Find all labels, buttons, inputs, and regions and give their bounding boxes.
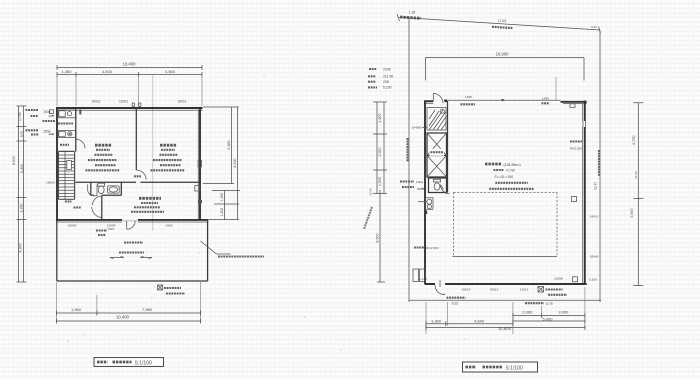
svg-text:16011: 16011 xyxy=(92,100,101,104)
right wall window squares xyxy=(572,197,577,202)
svg-text:4,640: 4,640 xyxy=(474,318,485,323)
extension lines from top dims xyxy=(57,75,202,106)
closet door arc xyxy=(76,139,86,149)
svg-text:2,500: 2,500 xyxy=(378,147,382,156)
svg-text:12.46: 12.46 xyxy=(634,171,638,179)
svg-text:1,800: 1,800 xyxy=(220,208,224,216)
bottom wall 1F xyxy=(425,283,587,285)
svg-text:FL=GL+150: FL=GL+150 xyxy=(495,175,514,179)
bottom dims xyxy=(56,282,200,322)
svg-text:211.96: 211.96 xyxy=(383,75,393,79)
window sill mark top right xyxy=(570,104,575,108)
road boundary rotated label left xyxy=(406,138,408,162)
balcony outline xyxy=(57,221,208,281)
svg-text:10,900: 10,900 xyxy=(496,52,509,57)
tick boxes above wall xyxy=(132,103,134,106)
interior wall vertical between rooms xyxy=(135,109,137,170)
svg-text:S:1/100: S:1/100 xyxy=(506,366,523,372)
svg-text:16011: 16011 xyxy=(178,100,187,104)
svg-text:700Y: 700Y xyxy=(107,227,114,231)
right dim stack of left plan xyxy=(232,107,238,220)
building right wall xyxy=(584,101,586,285)
svg-text:0.32: 0.32 xyxy=(591,25,597,29)
toilet door 1F xyxy=(441,185,450,194)
building left wall xyxy=(424,101,426,285)
mezzanine dashed outline xyxy=(454,192,558,255)
svg-text:3,000: 3,000 xyxy=(558,310,569,315)
toilet block walls xyxy=(91,182,122,196)
fold line light vertical xyxy=(152,75,154,231)
door jamb blob xyxy=(444,100,447,103)
exhaust duct note xyxy=(158,285,163,290)
storage room label block xyxy=(139,197,161,200)
svg-text:11013: 11013 xyxy=(520,288,529,292)
right wall window notch xyxy=(582,121,587,127)
site boundary slanted road line xyxy=(399,17,600,30)
svg-text:1,960: 1,960 xyxy=(71,307,82,312)
svg-text:1490: 1490 xyxy=(465,95,472,99)
svg-text:1490: 1490 xyxy=(542,96,549,100)
svg-text:16040: 16040 xyxy=(590,255,599,259)
svg-text:16009: 16009 xyxy=(46,181,55,185)
corridor label xyxy=(74,206,82,208)
dimension line 10,400 top total xyxy=(57,65,202,70)
svg-text:5,230: 5,230 xyxy=(383,86,392,90)
stair core right wall xyxy=(447,101,449,193)
svg-text:5,400: 5,400 xyxy=(20,164,24,173)
svg-text:4,560: 4,560 xyxy=(165,69,176,74)
balcony labels xyxy=(124,241,143,243)
svg-text:16013: 16013 xyxy=(462,288,471,292)
svg-text:6.79: 6.79 xyxy=(546,302,553,306)
DN label xyxy=(65,200,72,202)
shutter opening thin line xyxy=(447,99,561,101)
toilet room 1F xyxy=(429,178,447,193)
svg-text:10,400: 10,400 xyxy=(123,62,136,67)
left dim stack 1F xyxy=(377,102,384,194)
vanity counter xyxy=(88,184,97,196)
svg-text:228: 228 xyxy=(383,80,389,84)
svg-text:4,730: 4,730 xyxy=(506,169,515,173)
balcony door xyxy=(127,221,136,229)
toilet fixture xyxy=(98,183,105,186)
svg-text:D=800: D=800 xyxy=(412,126,421,130)
concrete hook callout xyxy=(201,241,231,254)
svg-text:8,510: 8,510 xyxy=(12,156,16,165)
svg-text:10,900: 10,900 xyxy=(498,326,511,331)
dimension line top subdivisions 1,360 / 4,500 / 4,560 xyxy=(57,72,202,77)
top wall xyxy=(56,107,203,109)
left dim stack xyxy=(19,106,24,282)
washing machine xyxy=(425,198,433,210)
svg-text:5,460: 5,460 xyxy=(227,140,231,149)
svg-text:12.47: 12.47 xyxy=(594,182,598,190)
right wall labels xyxy=(570,140,582,142)
top dim 10,900 xyxy=(426,58,585,81)
svg-text:5,100: 5,100 xyxy=(589,278,597,282)
svg-text:16012: 16012 xyxy=(490,288,499,292)
kitchen counter unit xyxy=(58,110,76,118)
svg-text:10,400: 10,400 xyxy=(116,315,129,320)
bottom wall of rooms / balcony top xyxy=(56,219,209,221)
vent labels below wall xyxy=(96,229,107,231)
door jamb tick xyxy=(79,110,81,115)
svg-text:6.32: 6.32 xyxy=(452,302,459,306)
exhaust duct note 1F xyxy=(538,287,544,293)
svg-text:2208: 2208 xyxy=(383,67,391,71)
toilet door arcs xyxy=(92,196,101,205)
svg-text:100φ: 100φ xyxy=(416,180,423,184)
vent label 1F xyxy=(400,182,414,188)
staircase 1F xyxy=(427,108,447,131)
left outside labels: water heater / vent xyxy=(26,110,56,135)
neighbor boundary note bottom xyxy=(525,302,544,304)
door threshold line xyxy=(122,220,138,222)
svg-text:4,300: 4,300 xyxy=(19,243,23,252)
svg-text:12.46: 12.46 xyxy=(369,188,373,196)
svg-text:W=2,930: W=2,930 xyxy=(426,246,439,250)
bottom dims 1F xyxy=(426,287,585,334)
site boundary line bottom xyxy=(410,299,602,301)
right site boundary vertical xyxy=(599,30,601,302)
entry door bottom xyxy=(439,280,441,287)
interior wall horizontal xyxy=(76,181,201,183)
kitchen divider wall xyxy=(75,109,77,152)
water slope arrows xyxy=(110,256,152,258)
svg-text:1,790: 1,790 xyxy=(18,112,22,121)
level note xyxy=(414,246,424,248)
svg-text:1,360: 1,360 xyxy=(431,318,442,323)
title block 2F xyxy=(94,358,164,367)
top wall right dark segment xyxy=(561,101,587,103)
elevator shaft xyxy=(427,133,447,177)
title block 1F xyxy=(463,362,538,372)
svg-text:6,750: 6,750 xyxy=(632,135,636,144)
svg-text:1,330: 1,330 xyxy=(20,203,24,212)
window notch right wall xyxy=(198,161,202,167)
svg-text:250φ: 250φ xyxy=(43,130,50,134)
svg-text:2,060: 2,060 xyxy=(522,310,533,315)
workshop room label block xyxy=(485,163,502,166)
svg-text:RH2,000: RH2,000 xyxy=(570,147,582,151)
svg-text:1180B: 1180B xyxy=(554,277,563,281)
svg-text:S:1/100: S:1/100 xyxy=(135,361,152,367)
oshiire closet label xyxy=(60,144,69,146)
kitchen label xyxy=(58,122,73,124)
svg-text:1900: 1900 xyxy=(166,224,173,228)
staircase xyxy=(58,151,74,199)
svg-text:8,900: 8,900 xyxy=(376,233,380,242)
svg-text:16011: 16011 xyxy=(119,100,128,104)
washbasin fixture xyxy=(108,186,120,193)
left site boundary vertical xyxy=(408,18,410,303)
building top wall xyxy=(424,100,433,102)
svg-text:8,190: 8,190 xyxy=(233,158,237,167)
shutter center mark xyxy=(501,99,504,101)
svg-text:16909: 16909 xyxy=(68,224,77,228)
handwritten slanted note xyxy=(364,207,372,229)
svg-text:17.63: 17.63 xyxy=(498,19,507,23)
scan specks xyxy=(58,74,572,350)
svg-text:5,060: 5,060 xyxy=(542,316,553,321)
right wall xyxy=(199,107,201,220)
left wall xyxy=(56,107,58,221)
svg-text:1,000: 1,000 xyxy=(220,193,224,201)
corridor wall xyxy=(101,196,103,219)
svg-text:1.18: 1.18 xyxy=(409,10,416,14)
svg-text:(128.95m²): (128.95m²) xyxy=(504,163,521,167)
door arc room divider xyxy=(137,170,146,179)
right outer dim xyxy=(633,103,643,286)
step boxes bottom left xyxy=(413,269,419,282)
meeting room label block xyxy=(160,144,177,147)
svg-text:670: 670 xyxy=(20,131,24,137)
stove unit xyxy=(58,131,76,138)
svg-text:14010: 14010 xyxy=(590,215,599,219)
svg-text:1,360: 1,360 xyxy=(61,69,72,74)
svg-text:1,170: 1,170 xyxy=(419,277,427,281)
svg-text:7,980: 7,980 xyxy=(142,307,153,312)
svg-text:1,505: 1,505 xyxy=(378,177,382,186)
entry door top xyxy=(433,94,443,104)
neighbor boundary rotated label right xyxy=(598,150,600,176)
office room label block xyxy=(95,144,112,147)
svg-text:5,900: 5,900 xyxy=(630,208,634,217)
extension from mezzanine xyxy=(555,77,557,100)
svg-text:1,800: 1,800 xyxy=(378,113,382,122)
road boundary note bottom xyxy=(447,297,466,299)
site area table xyxy=(368,69,377,87)
svg-text:4,500: 4,500 xyxy=(102,69,113,74)
